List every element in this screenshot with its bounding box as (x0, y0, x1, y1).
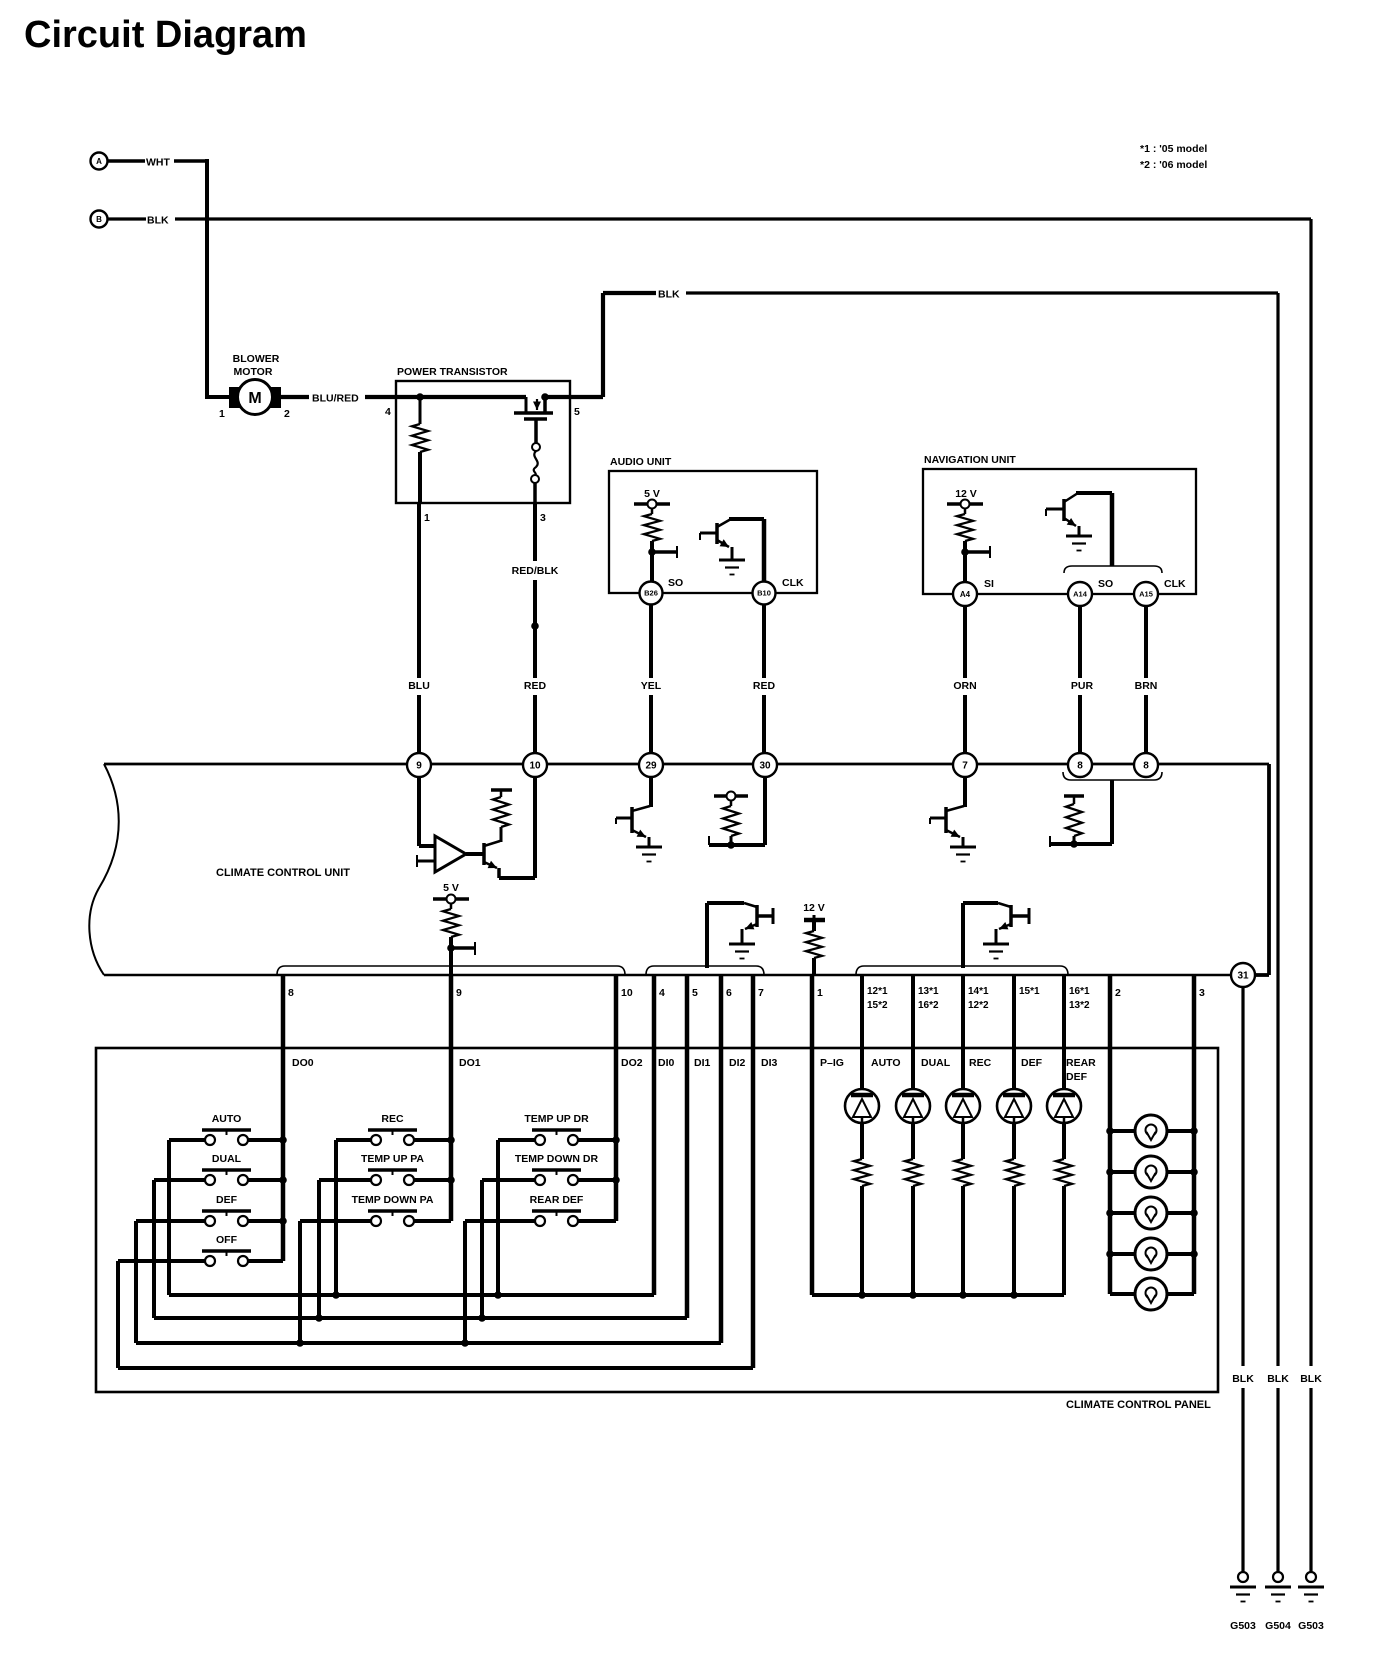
svg-text:2: 2 (284, 408, 290, 420)
node junction DO x283 y1221 (279, 1217, 287, 1225)
svg-text:DEF: DEF (1066, 1071, 1088, 1083)
svg-text:4: 4 (385, 406, 391, 418)
svg-text:AUTO: AUTO (212, 1113, 242, 1125)
wire WHT vertical to blower motor (205, 159, 233, 397)
transistor Q5 (616, 806, 650, 846)
svg-text:YEL: YEL (641, 680, 662, 692)
node junction dot R5 bottom (727, 841, 735, 849)
node junction dot nav SI (961, 546, 990, 558)
svg-text:DUAL: DUAL (921, 1057, 951, 1069)
svg-text:5 V: 5 V (443, 882, 459, 894)
svg-text:DI0: DI0 (658, 1057, 675, 1069)
ground G504 (1265, 1572, 1291, 1632)
svg-text:10: 10 (529, 761, 541, 772)
wire REAR DEF drop (463, 1221, 467, 1343)
wire R5 to pin 30 (709, 777, 765, 845)
svg-text:B: B (96, 215, 102, 224)
node junction DO x451 y1140 (447, 1136, 455, 1144)
svg-text:31: 31 (1237, 971, 1249, 982)
LED DEF (997, 975, 1031, 1123)
thermal fuse F1 (531, 419, 540, 503)
node dots DI0 bus (332, 1291, 502, 1299)
svg-text:DO1: DO1 (459, 1057, 481, 1069)
wire RED B10 to pin 30 (753, 605, 776, 753)
wire DUAL to DI1 bus (152, 1180, 156, 1318)
svg-text:G503: G503 (1230, 1620, 1256, 1632)
svg-text:NAVIGATION UNIT: NAVIGATION UNIT (924, 454, 1016, 466)
power 5V climate unit (433, 882, 469, 904)
svg-text:SI: SI (984, 578, 994, 590)
wire pin 29 down (649, 777, 653, 807)
wire LED bus (812, 1293, 1064, 1297)
svg-text:PUR: PUR (1071, 680, 1094, 692)
pin number 12*1/15*2 (867, 986, 888, 1011)
bracket pins 12-16 (856, 966, 1068, 975)
audio unit box (609, 456, 817, 593)
connector A4 (953, 582, 977, 606)
svg-text:13*1: 13*1 (918, 986, 939, 997)
wire TEMP UP DR drop (496, 1140, 500, 1295)
svg-text:4: 4 (659, 987, 665, 999)
wire DI1 bus (154, 1316, 687, 1320)
transistor Q8 (930, 806, 964, 846)
svg-text:G504: G504 (1265, 1620, 1291, 1632)
svg-text:MOTOR: MOTOR (234, 366, 273, 378)
buffer U1 triangle (435, 836, 466, 872)
svg-text:DI3: DI3 (761, 1057, 778, 1069)
resistor R7 (806, 920, 822, 975)
pin number 16*1/13*2 (1069, 986, 1090, 1011)
svg-text:8: 8 (1143, 761, 1149, 772)
switch REAR DEF (465, 1194, 616, 1226)
node junction dot R1 top (416, 393, 424, 401)
transistor Q4 blower driver (466, 841, 500, 868)
svg-text:1: 1 (424, 512, 430, 524)
resistor LED AUTO (854, 1123, 870, 1295)
switch REC (336, 1113, 451, 1145)
LED REC (946, 975, 980, 1123)
ground G503 (1230, 1572, 1256, 1632)
wire pin 31 to ground G503 (1241, 987, 1244, 1573)
svg-text:AUDIO UNIT: AUDIO UNIT (610, 456, 672, 468)
svg-text:BLK: BLK (1300, 1373, 1322, 1385)
svg-text:6: 6 (726, 987, 732, 999)
wire DI3 vertical (751, 975, 756, 1368)
svg-text:15*2: 15*2 (867, 1000, 888, 1011)
wire ORN A4 to pin 7 (953, 606, 976, 753)
wire OFF to DI3 bus (116, 1261, 120, 1368)
svg-text:13*2: 13*2 (1069, 1000, 1090, 1011)
wire REC drop (334, 1140, 338, 1295)
lamp L2 (1110, 1156, 1194, 1188)
svg-text:*2 : '06 model: *2 : '06 model (1140, 159, 1207, 171)
svg-text:DUAL: DUAL (212, 1153, 242, 1165)
svg-text:*1 : '05 model: *1 : '05 model (1140, 143, 1207, 155)
climate control unit outline (89, 764, 1269, 975)
svg-text:3: 3 (1199, 987, 1205, 999)
svg-text:A: A (96, 157, 102, 166)
svg-text:REC: REC (969, 1057, 992, 1069)
wire RED to pin 10 (524, 680, 547, 753)
wire TEMP DOWN PA drop (298, 1221, 302, 1343)
svg-text:B10: B10 (757, 589, 771, 598)
node dots DI1 bus (315, 1314, 486, 1322)
LED REAR DEF (1047, 975, 1081, 1123)
svg-text:1: 1 (817, 987, 823, 999)
switch TEMP UP DR (498, 1113, 616, 1145)
svg-text:CLK: CLK (782, 577, 804, 589)
bracket nav SO CLK (1064, 566, 1162, 573)
svg-text:REAR: REAR (1066, 1057, 1096, 1069)
wire pin 9 down (419, 777, 434, 846)
wire DI2 bus (136, 1341, 721, 1345)
transistor Q2 audio (700, 519, 732, 559)
resistor LED REAR DEF (1056, 1123, 1072, 1295)
svg-text:12*2: 12*2 (968, 1000, 989, 1011)
node dots LED bus (858, 1291, 1018, 1299)
connector pin 7 (953, 753, 977, 777)
svg-text:BLK: BLK (1267, 1373, 1289, 1385)
wire YEL B26 to pin 29 (641, 605, 662, 753)
node dots DI2 bus (296, 1339, 469, 1347)
node junction DO x616 y1140 (612, 1136, 620, 1144)
svg-text:CLIMATE CONTROL PANEL: CLIMATE CONTROL PANEL (1066, 1399, 1211, 1411)
resistor R5 at pin 30 (714, 792, 748, 846)
label REAR DEF (1066, 1057, 1096, 1083)
pin number 13*1/16*2 (918, 986, 939, 1011)
connector pin 9 (407, 753, 431, 777)
resistor R3 nav pull-up (957, 508, 973, 582)
svg-text:AUTO: AUTO (871, 1057, 901, 1069)
svg-text:RED/BLK: RED/BLK (512, 565, 559, 577)
node junction DO x451 y1180 (447, 1176, 455, 1184)
wire audio CLK collector (729, 519, 764, 582)
svg-text:BRN: BRN (1135, 680, 1158, 692)
connector pin 8 CLK (1134, 753, 1158, 777)
svg-text:CLK: CLK (1164, 578, 1186, 590)
resistor LED DUAL (905, 1123, 921, 1295)
wire BLK right vertical to ground G503 (1309, 219, 1312, 1573)
wire DI0 bus (169, 1293, 654, 1297)
connector pin 10 (523, 753, 547, 777)
wire pin 3 right lamp rail (1192, 975, 1197, 1294)
power transistor box (396, 366, 570, 503)
svg-text:A14: A14 (1073, 590, 1088, 599)
node dots lamp rails (1106, 1127, 1198, 1258)
svg-text:WHT: WHT (146, 157, 170, 169)
wire BRN A15 to pin 8 (1135, 606, 1158, 753)
wire pin 7 down (963, 777, 967, 807)
resistor LED REC (955, 1123, 971, 1295)
transistor Q3 nav (1046, 493, 1079, 535)
svg-text:BLU: BLU (408, 680, 430, 692)
lamp L3 (1110, 1197, 1194, 1229)
wire DO2 vertical (614, 975, 619, 1221)
svg-text:REAR DEF: REAR DEF (530, 1194, 584, 1206)
bracket pins 8 9 10 (277, 966, 625, 975)
resistor R6 (443, 903, 459, 975)
resistor R1 in power transistor (412, 397, 428, 503)
wire unit top edge to pin 31 (1255, 764, 1269, 975)
wire pin5 to BLK riser (545, 293, 603, 397)
wire WHT label segment (108, 157, 207, 169)
svg-text:RED: RED (753, 680, 776, 692)
svg-text:P–IG: P–IG (820, 1057, 844, 1069)
connector pin 31 (1231, 963, 1255, 987)
svg-text:DI2: DI2 (729, 1057, 746, 1069)
svg-text:3: 3 (540, 512, 546, 524)
switch DUAL (154, 1153, 283, 1185)
svg-text:A4: A4 (960, 590, 971, 599)
input stub with tick (417, 855, 434, 867)
bracket under pins 8 8 (1063, 772, 1162, 780)
ground Q5 emitter (636, 846, 662, 849)
node junction dot R6 bottom (447, 942, 475, 955)
svg-text:BLOWER: BLOWER (233, 353, 280, 365)
svg-text:DI1: DI1 (694, 1057, 711, 1069)
svg-text:DO2: DO2 (621, 1057, 643, 1069)
svg-text:CLIMATE CONTROL UNIT: CLIMATE CONTROL UNIT (216, 867, 350, 879)
node junction dot Q1 drain (541, 393, 549, 401)
connector B26 (640, 582, 663, 605)
svg-text:16*1: 16*1 (1069, 986, 1090, 997)
wire BLK audio ground run (603, 289, 1278, 301)
svg-text:9: 9 (456, 987, 462, 999)
svg-text:12 V: 12 V (803, 902, 825, 914)
svg-text:SO: SO (1098, 578, 1113, 590)
svg-text:SO: SO (668, 577, 683, 589)
svg-text:BLK: BLK (1232, 1373, 1254, 1385)
svg-text:A15: A15 (1139, 590, 1153, 599)
node junction dot R9 bottom (1070, 840, 1078, 848)
blower motor M1 (229, 353, 281, 415)
wire DI2 vertical (719, 975, 724, 1343)
connector pin 29 (639, 753, 663, 777)
connector pin 8 SO (1068, 753, 1092, 777)
climate control panel box (96, 1048, 1218, 1392)
resistor R2 audio pull-up (644, 508, 660, 582)
resistor R4 (491, 790, 512, 842)
node junction DO x616 y1180 (612, 1176, 620, 1184)
svg-text:RED: RED (524, 680, 547, 692)
ground Q8 emitter (950, 846, 976, 849)
svg-text:B26: B26 (644, 589, 658, 598)
wire PUR A14 to pin 8 (1071, 606, 1094, 753)
wire Q4 emitter to pin 10 (499, 777, 535, 878)
lamp L1 (1110, 1115, 1194, 1147)
wire DI0 vertical (652, 975, 657, 1295)
wire DI1 vertical (685, 975, 690, 1318)
switch TEMP DOWN DR (482, 1153, 616, 1185)
wire BLU pin1 to pin 9 (408, 503, 430, 753)
svg-text:14*1: 14*1 (968, 986, 989, 997)
wire DO0 vertical (281, 975, 286, 1261)
wire DI3 bus (118, 1366, 753, 1370)
node splice dot RED wire (531, 622, 539, 630)
power 12V climate unit (803, 902, 825, 920)
svg-text:12*1: 12*1 (867, 986, 888, 997)
svg-text:16*2: 16*2 (918, 1000, 939, 1011)
power 12V nav (947, 488, 983, 509)
resistor R9 (1064, 796, 1084, 844)
svg-text:1: 1 (219, 408, 225, 420)
wire nav collector to SO/CLK bracket (1076, 493, 1112, 566)
wire pin 2 left lamp rail (1108, 975, 1113, 1294)
svg-text:8: 8 (288, 987, 294, 999)
node junction dot audio SO (648, 546, 677, 558)
note model years (1140, 143, 1207, 171)
svg-text:Circuit Diagram: Circuit Diagram (24, 14, 307, 56)
transistor Q6 (707, 903, 773, 968)
svg-text:DEF: DEF (1021, 1057, 1043, 1069)
svg-text:BLU/RED: BLU/RED (312, 393, 359, 405)
svg-text:5 V: 5 V (644, 488, 660, 500)
wire BLK middle vertical to ground G504 (1276, 293, 1279, 1573)
lamp L4 (1110, 1238, 1194, 1270)
LED DUAL (896, 975, 930, 1123)
node junction DO x283 y1140 (279, 1136, 287, 1144)
svg-text:2: 2 (1115, 987, 1121, 999)
navigation unit box (923, 454, 1196, 594)
svg-text:7: 7 (758, 987, 764, 999)
svg-text:BLK: BLK (147, 215, 169, 227)
switch TEMP DOWN PA (300, 1194, 451, 1226)
svg-text:ORN: ORN (953, 680, 976, 692)
ground Q6 emitter (729, 943, 755, 946)
wire TEMP UP PA drop (317, 1180, 321, 1318)
switch DEF (136, 1194, 283, 1226)
svg-text:DO0: DO0 (292, 1057, 314, 1069)
svg-text:7: 7 (962, 761, 968, 772)
svg-text:8: 8 (1077, 761, 1083, 772)
transistor Q7 (963, 903, 1029, 968)
wire AUTO to DI0 bus (167, 1140, 171, 1295)
bracket pins 4 5 6 7 (646, 966, 764, 975)
wire RED/BLK pin3 down (512, 503, 559, 678)
connector B (91, 211, 108, 228)
svg-text:30: 30 (759, 761, 771, 772)
svg-text:9: 9 (416, 761, 422, 772)
connector A (91, 153, 108, 170)
connector pin 30 (753, 753, 777, 777)
svg-text:REC: REC (381, 1113, 404, 1125)
svg-text:G503: G503 (1298, 1620, 1324, 1632)
svg-text:29: 29 (645, 761, 657, 772)
switch TEMP UP PA (319, 1153, 451, 1185)
ground G503 (1298, 1572, 1324, 1632)
svg-text:10: 10 (621, 987, 633, 999)
svg-text:DEF: DEF (216, 1194, 238, 1206)
svg-text:12 V: 12 V (955, 488, 977, 500)
wire TEMP DOWN DR drop (480, 1180, 484, 1318)
wire BLU/RED motor to power transistor (281, 393, 396, 405)
ground nav Q3 emitter (1066, 535, 1092, 538)
svg-text:OFF: OFF (216, 1234, 238, 1246)
svg-text:BLK: BLK (658, 289, 680, 301)
node junction DO x283 y1180 (279, 1176, 287, 1184)
svg-text:TEMP DOWN PA: TEMP DOWN PA (352, 1194, 434, 1206)
pin number 15*1/ (1019, 986, 1040, 997)
transistor Q1 FET symbol (514, 395, 553, 419)
connector B10 (753, 582, 776, 605)
wire input to gate (396, 395, 526, 399)
wire P-IG pin 1 vertical (810, 975, 815, 1295)
svg-text:POWER TRANSISTOR: POWER TRANSISTOR (397, 366, 508, 378)
svg-text:5: 5 (692, 987, 698, 999)
LED AUTO (845, 975, 879, 1123)
wire bracket 8-8 down (1050, 780, 1112, 847)
wire BLK from B across page (108, 215, 1311, 227)
power 5V audio (634, 488, 670, 509)
switch OFF (118, 1234, 283, 1266)
svg-text:15*1: 15*1 (1019, 986, 1040, 997)
svg-text:TEMP UP PA: TEMP UP PA (361, 1153, 424, 1165)
lamp L5 (1110, 1278, 1194, 1310)
wire DO1 vertical (449, 975, 454, 1221)
connector A14 (1068, 582, 1092, 606)
wire DEF to DI2 bus (134, 1221, 138, 1343)
ground audio Q2 emitter (719, 559, 745, 562)
svg-text:M: M (248, 390, 261, 407)
svg-text:5: 5 (574, 406, 580, 418)
pin number 14*1/12*2 (968, 986, 989, 1011)
svg-text:TEMP UP DR: TEMP UP DR (524, 1113, 589, 1125)
connector A15 (1134, 582, 1158, 606)
svg-text:TEMP DOWN DR: TEMP DOWN DR (515, 1153, 599, 1165)
switch AUTO (169, 1113, 283, 1145)
ground Q7 emitter (983, 943, 1009, 946)
resistor LED DEF (1006, 1123, 1022, 1295)
